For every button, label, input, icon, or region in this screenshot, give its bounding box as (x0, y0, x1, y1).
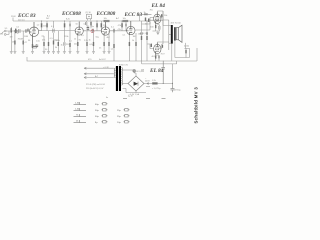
connector J2 input jack 2 (4, 34, 6, 36)
resistor R10 cathode V2 (77, 42, 78, 46)
ground G9 (92, 52, 95, 54)
speaker LS1 (176, 28, 178, 40)
resistor R21 (141, 36, 142, 40)
annotation tick a (123, 98, 127, 100)
svg-text:20k: 20k (164, 15, 167, 17)
wire R21 drop (141, 21, 143, 61)
wire heater line 2 (84, 73, 114, 75)
wire R29 (42, 36, 45, 52)
wire C11 (63, 31, 65, 52)
svg-text:C8 50µ: C8 50µ (174, 90, 181, 92)
wire V1 cathode to ground (32, 48, 34, 52)
svg-text:Z=5Ω: Z=5Ω (184, 45, 190, 47)
annotation tick c (162, 98, 166, 100)
resistor R23 cathode V5 (155, 25, 156, 28)
wire rectifier bottom (126, 91, 146, 93)
wire V3 plate (105, 21, 107, 22)
resistor R33 grid stopper (144, 13, 148, 15)
resistor R7 (53, 41, 54, 45)
svg-text:47k: 47k (118, 25, 121, 27)
wire grid feed EL84 no.1 (142, 18, 154, 25)
capacitor C1 coupling (19, 29, 20, 33)
wire R19 (128, 35, 130, 61)
svg-text:47k: 47k (118, 29, 121, 31)
wire R10 (77, 36, 79, 52)
svg-text:10M: 10M (24, 36, 28, 38)
annotation rail left stub (12, 18, 14, 22)
SECTION: bottom table (74, 96, 166, 124)
svg-text:1k: 1k (74, 39, 76, 41)
capacitor C15 splitter out 1 (141, 32, 142, 35)
svg-text:270 Ω (2W) zu EL 84: 270 Ω (2W) zu EL 84 (86, 83, 106, 86)
resistor R15 cathode V3 (103, 42, 104, 46)
wire R14 (100, 21, 102, 31)
wire R3 drop (22, 31, 24, 52)
ground G5 (52, 52, 55, 54)
capacitor C3 coupling (53, 29, 54, 33)
transformer T2 core bar 2 (119, 66, 121, 91)
wire bus to psu (155, 55, 157, 61)
wire R13 (96, 21, 98, 31)
wire lamp feed (123, 69, 134, 71)
transformer T2 winding right (121, 68, 122, 86)
svg-text:1M: 1M (138, 34, 141, 36)
wire transformer centre tap (163, 20, 171, 50)
svg-text:4x: 4x (106, 97, 108, 99)
wire R22 drop (146, 21, 148, 61)
wire transformer to rectifier (123, 83, 129, 85)
resistor R38 grid leak V6 (151, 44, 152, 47)
tube V6 EL84 output pentode (154, 44, 161, 53)
transformer T1 secondary bar (174, 27, 175, 40)
resistor R22 (146, 36, 147, 40)
svg-text:5W: 5W (141, 70, 144, 72)
tube V3 ECC808 triode (101, 27, 109, 35)
ground G1 (10, 52, 13, 54)
resistor R40 grid stopper V1 (27, 29, 28, 32)
resistor R24 feedback (185, 50, 186, 54)
capacitor C13 node (86, 22, 87, 25)
svg-text:1k: 1k (61, 45, 63, 47)
wire V6 screen (159, 44, 163, 48)
capacitor C6 coupling (113, 29, 114, 33)
svg-text:≈ 6,3V: ≈ 6,3V (103, 67, 109, 69)
svg-text:1M: 1M (133, 36, 136, 38)
resistor R32 node (90, 22, 91, 26)
svg-text:ECC808: ECC808 (61, 11, 81, 17)
resistor R26 rail series (104, 20, 110, 22)
wire right edge drop (196, 48, 198, 61)
transformer T2 winding left (114, 68, 115, 78)
resistor R18 plate load V4 (121, 23, 123, 27)
resistor R12 (93, 42, 94, 46)
resistor R28 input series (14, 30, 17, 32)
node dot riser (172, 83, 173, 84)
potentiometer P1 volume (32, 46, 38, 47)
svg-text:1k: 1k (132, 40, 134, 42)
capacitor C14 cathode bypass V5 (159, 26, 160, 30)
ground G2 (13, 52, 16, 54)
wire B+ top rail (13, 19, 163, 22)
wire band lower bus left corner (27, 57, 197, 61)
resistor R27 rail series (123, 20, 129, 22)
wire V6 plate to transformer (157, 42, 171, 43)
svg-text:≈ 1,4 70µ: ≈ 1,4 70µ (152, 88, 161, 90)
capacitor C10 input (26, 29, 27, 33)
tube V2 ECC808 triode (75, 27, 83, 35)
ground G15 (69, 52, 72, 54)
resistor R2 grid (14, 41, 15, 45)
wire R6 (46, 21, 48, 31)
svg-text:ECC 83: ECC 83 (17, 13, 36, 19)
wire plate V1 up (39, 21, 42, 31)
resistor R30 (48, 42, 49, 46)
ground G13 (47, 52, 50, 54)
wire R11 (86, 31, 88, 52)
svg-text:220 (3x ECC) 6,3 V: 220 (3x ECC) 6,3 V (86, 88, 104, 90)
wire R7 to ground (53, 45, 55, 52)
wire C6 node (113, 33, 115, 61)
svg-text:47k: 47k (42, 40, 45, 42)
wire R20 (135, 33, 137, 61)
ground G3 (22, 52, 25, 54)
ground G14 (63, 52, 66, 54)
ground G7 (76, 52, 79, 54)
svg-text:(2) 30: (2) 30 (86, 12, 92, 14)
transformer T1 output primary bar (171, 25, 173, 44)
wire R33 (140, 14, 152, 21)
svg-text:1k: 1k (89, 39, 91, 41)
SECTION: power supply (84, 59, 181, 96)
resistor R34 cathode V6 (155, 55, 156, 58)
svg-text:76 V: 76 V (161, 54, 166, 56)
resistor R9 plate load V2 (64, 23, 66, 27)
resistor R11 (86, 42, 87, 46)
lamp La1 pilot (133, 70, 136, 73)
resistor R13 plate load V3 (96, 23, 98, 27)
capacitor C5 coupling (92, 29, 93, 33)
resistor R35 bias feed (145, 18, 146, 22)
resistor R36 bias feed 2 (148, 19, 149, 22)
svg-text:4µ IV: 4µ IV (128, 96, 133, 98)
wire R12 (93, 33, 95, 52)
wire rectifier top (134, 72, 136, 76)
node A junction dots on rail (41, 21, 42, 22)
capacitor C11 tone (64, 42, 65, 46)
resistor R3 grid leak (23, 41, 24, 45)
wire R2 drop (14, 31, 16, 52)
wire R16 (108, 31, 110, 52)
svg-text:1,5k: 1,5k (36, 41, 40, 43)
svg-text:EL 84: EL 84 (151, 3, 166, 9)
wire C12 (87, 25, 89, 31)
svg-text:10k: 10k (104, 18, 107, 20)
wire V5 screen (159, 16, 163, 18)
resistor R5 plate load V1 (41, 23, 43, 27)
capacitor C7 (125, 23, 126, 26)
wire R31 (69, 31, 71, 52)
resistor R31 (69, 43, 70, 47)
wire R9 (64, 21, 66, 31)
ground G16 EL84 (156, 32, 159, 34)
annotation red mark (91, 30, 94, 33)
svg-text:1k: 1k (144, 12, 146, 14)
tube V1 ECC 83 triode (29, 27, 38, 36)
tube V4 ECC 83 triode phase splitter (127, 26, 135, 34)
capacitor C2 cathode bypass (33, 44, 39, 48)
SECTION: output stage right (96, 3, 197, 64)
ground G10 (103, 52, 106, 54)
resistor R17 (113, 44, 114, 48)
svg-text:ECC808: ECC808 (96, 11, 116, 17)
wire B+ riser (172, 64, 174, 83)
resistor R29 (43, 42, 44, 46)
rectifier GR1 bridge (128, 76, 144, 91)
resistor R39 screen V6 (162, 45, 163, 48)
resistor R14 decoupling (101, 23, 103, 27)
svg-text:245V: 245V (145, 81, 150, 83)
svg-text:1M: 1M (12, 42, 15, 44)
wire V2 plate (78, 21, 80, 22)
wire lower link (142, 61, 177, 64)
svg-text:10k: 10k (123, 18, 126, 20)
wire R1 to ground (10, 27, 12, 52)
wire speaker return (184, 43, 189, 58)
diode D1 arrow (134, 82, 138, 86)
annotation tick b (146, 98, 150, 100)
SECTION: margin text (193, 87, 198, 124)
svg-text:5k: 5k (55, 47, 57, 49)
wire B+ output arrow (144, 83, 173, 85)
wire heater line 1 (84, 67, 114, 69)
resistor R19 cathode V4 (129, 42, 130, 46)
wire C4 (69, 21, 71, 31)
svg-text:4x ECC: 4x ECC (99, 59, 106, 61)
capacitor C8 electrolytic (171, 83, 175, 92)
capacitor C17 bypass V6 (158, 56, 159, 59)
ground G6 (57, 52, 60, 54)
tube V5 EL84 output pentode (154, 14, 161, 23)
wire signal line (6, 22, 150, 31)
annotation switch box (87, 14, 92, 19)
svg-text:220 1,5: 220 1,5 (18, 19, 26, 21)
capacitor C9 electrolytic (161, 61, 165, 84)
wire C3 node (53, 21, 55, 41)
wire R8 (57, 31, 59, 52)
resistor R8 (58, 42, 59, 46)
resistor R4 cathode (32, 44, 33, 48)
wire feedback (185, 48, 187, 57)
resistor R25 smoothing (152, 82, 157, 84)
resistor R16 (108, 42, 109, 46)
wire psu link (146, 86, 150, 88)
svg-text:Schaltbild MV 3: Schaltbild MV 3 (193, 87, 198, 124)
ground G4 (31, 52, 34, 54)
svg-text:B250 C75: B250 C75 (119, 64, 129, 66)
svg-text:30V 70 150: 30V 70 150 (171, 23, 182, 25)
svg-text:250V: 250V (11, 16, 16, 18)
ground G8 (86, 52, 89, 54)
wire C7 (125, 21, 128, 31)
capacitor C12 dark (87, 27, 90, 28)
svg-text:EL 84: EL 84 (149, 68, 164, 74)
wire R18 (121, 21, 123, 31)
wire R30 (48, 31, 50, 52)
wire screen rail vertical (162, 11, 164, 44)
resistor R6 decoupling (46, 23, 48, 27)
svg-text:8,2k: 8,2k (66, 18, 70, 20)
capacitor C16 splitter out 2 (146, 32, 147, 35)
wire heater line 3 (84, 76, 114, 78)
potentiometer P2 input (15, 29, 17, 34)
wire grid feed EL84 no.2 (147, 44, 154, 49)
svg-text:1,2k: 1,2k (152, 80, 156, 82)
transformer T2 core bar 1 (116, 66, 118, 91)
resistor R37 screen stopper (161, 14, 162, 17)
wire secondary taps (172, 41, 190, 61)
node dot psu (163, 83, 164, 84)
SECTION: main amplifier band (0, 11, 197, 61)
capacitor C4 (69, 23, 70, 26)
wire V5 cathode (153, 28, 156, 31)
wire V5 plate to transformer (157, 11, 171, 26)
ground G12 (43, 52, 46, 54)
resistor R1 (11, 28, 13, 32)
resistor R20 tail (135, 42, 136, 46)
svg-text:Mik: Mik (0, 34, 3, 36)
wire R15 (103, 36, 105, 52)
wire heater tap (123, 89, 127, 93)
ground G11 (108, 52, 111, 54)
svg-text:70k: 70k (18, 39, 21, 41)
